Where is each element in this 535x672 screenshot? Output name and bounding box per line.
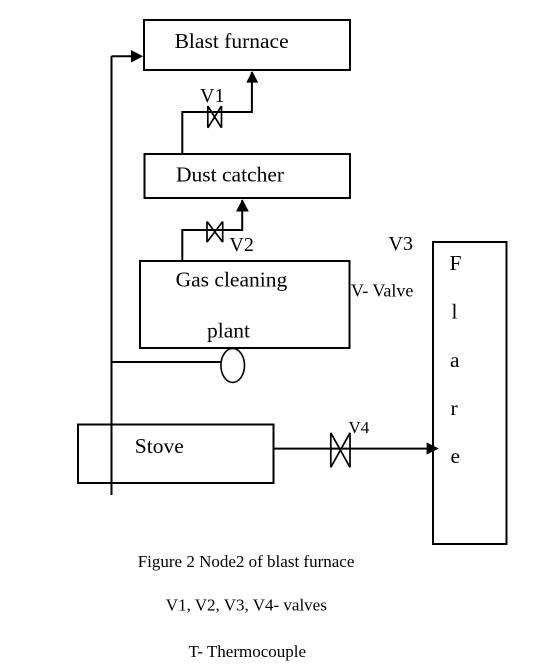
wire arrow into blast furnace left: [112, 55, 133, 57]
svg-text:V- Valve: V- Valve: [351, 280, 414, 300]
svg-text:r: r: [451, 396, 458, 420]
valve V4 bowtie: [331, 433, 350, 468]
svg-text:V3: V3: [389, 233, 413, 255]
arrowhead up into blast furnace bottom: [246, 71, 258, 83]
thermocouple ellipse: [221, 348, 245, 382]
valve V2 bowtie: [207, 222, 223, 243]
svg-text:V4: V4: [349, 418, 370, 437]
valve V1 bowtie: [208, 106, 222, 128]
Dust catcher box: [145, 154, 351, 198]
Gas cleaning plant box: [140, 261, 350, 348]
svg-text:V1, V2, V3, V4- valves: V1, V2, V3, V4- valves: [166, 596, 327, 615]
wire horizontal to ellipse: [112, 361, 222, 363]
svg-text:Gas cleaning: Gas cleaning: [176, 268, 288, 292]
arrowhead into flare: [427, 442, 439, 454]
svg-text:plant: plant: [207, 319, 250, 343]
svg-text:a: a: [450, 348, 460, 372]
svg-text:Dust catcher: Dust catcher: [176, 162, 284, 186]
Stove box: [78, 425, 274, 484]
svg-text:l: l: [452, 300, 458, 324]
svg-text:e: e: [451, 444, 461, 468]
wire V1 pipe from dust catcher to blast furnace: [182, 72, 252, 154]
svg-text:Stove: Stove: [135, 434, 184, 458]
arrowhead into blast furnace: [131, 50, 143, 63]
wire stove outlet to flare: [274, 448, 429, 450]
Flare box: [433, 242, 507, 544]
arrowhead up into dust catcher bottom: [236, 199, 249, 211]
svg-text:Figure 2 Node2 of blast furnac: Figure 2 Node2 of blast furnace: [138, 552, 355, 571]
svg-text:V1: V1: [200, 85, 224, 107]
svg-text:T- Thermocouple: T- Thermocouple: [189, 642, 307, 661]
svg-text:Blast furnace: Blast furnace: [175, 29, 289, 53]
svg-text:F: F: [450, 251, 462, 275]
svg-text:V2: V2: [229, 234, 253, 256]
wire V2 pipe from gas cleaning plant to dust catcher: [182, 200, 242, 261]
Blast furnace box: [144, 20, 350, 70]
wire main vertical line: [111, 56, 113, 495]
